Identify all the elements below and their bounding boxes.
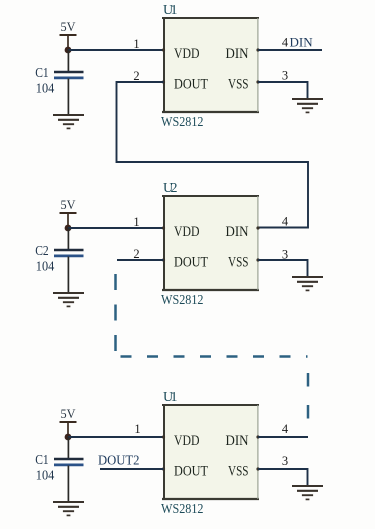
capacitor C1 — [54, 72, 84, 78]
svg-text:4: 4 — [282, 422, 289, 436]
svg-text:U2: U2 — [163, 181, 178, 196]
wire capacitor C2 to ground — [67, 257, 69, 294]
wire capacitor C1 to ground — [67, 466, 69, 503]
power symbol 5V (U1 bottom) — [60, 407, 77, 437]
svg-text:C2: C2 — [35, 243, 49, 258]
ground symbol below C1 — [53, 502, 84, 515]
svg-text:DIN: DIN — [290, 35, 314, 50]
wire U2 DOUT pin 2 stub — [117, 259, 164, 261]
svg-text:5V: 5V — [61, 20, 76, 34]
svg-text:DOUT: DOUT — [174, 77, 208, 93]
svg-text:DOUT: DOUT — [174, 464, 208, 480]
ground symbol below C2 — [53, 293, 84, 306]
svg-text:3: 3 — [282, 454, 288, 468]
svg-text:DIN: DIN — [226, 46, 249, 62]
dashed continuation wire down to last stage DIN (vertical) — [307, 373, 310, 437]
svg-text:VDD: VDD — [174, 46, 200, 62]
svg-text:2: 2 — [133, 69, 139, 83]
wire 5V junction down to capacitor C2 — [67, 228, 69, 250]
svg-text:4: 4 — [282, 215, 289, 229]
svg-text:C1: C1 — [35, 452, 49, 467]
wire U1 DIN pin 4 to net DIN — [258, 49, 322, 51]
ground symbol at bottom U1 VSS — [292, 486, 323, 499]
IC U2 pin connection dots — [162, 226, 260, 261]
svg-text:WS2812: WS2812 — [161, 502, 204, 517]
junction dot node 5V/U1 top — [65, 47, 72, 54]
svg-text:DOUT2: DOUT2 — [98, 453, 140, 468]
svg-text:VDD: VDD — [174, 224, 200, 240]
svg-text:5V: 5V — [61, 407, 76, 421]
ground symbol at U2 VSS — [292, 277, 323, 290]
svg-text:1: 1 — [133, 37, 139, 51]
svg-text:104: 104 — [36, 259, 55, 274]
svg-text:104: 104 — [36, 81, 55, 96]
svg-text:U1: U1 — [163, 3, 178, 18]
power symbol 5V (U1 top) — [60, 20, 77, 50]
svg-text:VSS: VSS — [228, 464, 249, 480]
wire 5V junction down to capacitor C1 — [67, 437, 69, 459]
ground symbol below C1 — [53, 115, 84, 128]
svg-text:DOUT: DOUT — [174, 255, 208, 271]
svg-text:DIN: DIN — [226, 433, 249, 449]
svg-text:4: 4 — [282, 36, 289, 50]
wire 5V to bottom U1 pin 1 VDD — [68, 436, 164, 438]
svg-text:C1: C1 — [35, 65, 49, 80]
wire 5V to U2 pin 1 VDD — [68, 227, 164, 229]
svg-text:VDD: VDD — [174, 433, 200, 449]
svg-text:WS2812: WS2812 — [161, 293, 204, 308]
svg-text:2: 2 — [133, 247, 139, 261]
IC U2 (WS2812) body — [162, 195, 259, 291]
IC U1-bottom (WS2812) body — [162, 404, 259, 500]
svg-text:1: 1 — [133, 215, 139, 229]
junction dot node 5V/U1 bottom — [65, 434, 72, 441]
svg-text:VSS: VSS — [228, 77, 249, 93]
svg-text:104: 104 — [36, 468, 55, 483]
wire U1 VSS pin 3 to ground — [258, 82, 308, 99]
ground symbol at U1 VSS — [292, 99, 323, 112]
svg-text:3: 3 — [282, 69, 288, 83]
capacitor C1 — [54, 459, 84, 465]
IC U1-top (WS2812) body — [162, 17, 259, 113]
dashed continuation wire (horizontal run) — [121, 355, 308, 358]
svg-text:5V: 5V — [61, 198, 76, 212]
svg-text:U1: U1 — [163, 390, 178, 405]
svg-text:1: 1 — [134, 422, 140, 436]
dashed continuation wire U2 DOUT down (vertical) — [114, 274, 117, 356]
wire U2 VSS pin 3 to ground — [258, 260, 308, 277]
wire bottom U1 VSS pin 3 to ground — [258, 469, 308, 486]
svg-text:VSS: VSS — [228, 255, 249, 271]
junction dot node 5V/U2 — [65, 225, 72, 232]
svg-text:DIN: DIN — [226, 224, 249, 240]
capacitor C2 — [54, 250, 84, 256]
wire capacitor C1 to ground — [67, 79, 69, 116]
wire net DOUT2 to bottom U1 DOUT pin 2 — [100, 468, 164, 470]
wire U1 DOUT pin 2 routing to U2 DIN pin 4 — [117, 82, 309, 228]
wire 5V junction down to capacitor C1 — [67, 50, 69, 72]
wire 5V to U1 pin 1 VDD — [68, 49, 164, 51]
power symbol 5V (U2) — [60, 198, 77, 228]
IC U1-bottom pin connection dots — [162, 435, 260, 470]
wire bottom U1 DIN pin 4 from dashed line — [258, 436, 308, 438]
IC U1-top pin connection dots — [162, 48, 260, 83]
svg-text:WS2812: WS2812 — [161, 115, 204, 130]
